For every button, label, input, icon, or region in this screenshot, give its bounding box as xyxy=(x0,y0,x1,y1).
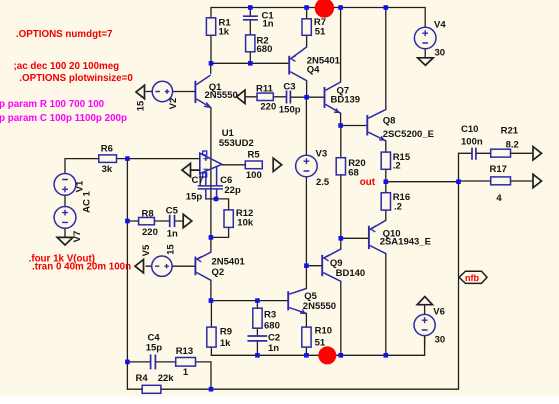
wire base row y300.6 xyxy=(211,300,288,302)
capacitor C5 xyxy=(170,216,175,227)
wire Q5 emitter / R10 leads xyxy=(305,313,307,355)
voltage source V7 xyxy=(54,207,76,229)
svg-text:Q4: Q4 xyxy=(307,65,320,76)
voltage source V6 xyxy=(414,314,435,335)
wire Q2 collector down xyxy=(210,280,212,300)
svg-text:R21: R21 xyxy=(501,126,519,137)
svg-text:;ac dec 100 20 100meg: ;ac dec 100 20 100meg xyxy=(14,61,120,72)
svg-text:10k: 10k xyxy=(237,217,254,228)
svg-text:C3: C3 xyxy=(283,82,295,93)
svg-text:R9: R9 xyxy=(220,327,232,338)
voltage source V3 xyxy=(296,155,318,177)
resistor R4 xyxy=(142,385,161,393)
resistor R17 xyxy=(491,177,511,185)
svg-text:R5: R5 xyxy=(248,150,261,161)
port in V5 xyxy=(135,260,144,273)
svg-text:2SA1943_E: 2SA1943_E xyxy=(380,237,431,248)
op-amp U1 xyxy=(200,151,246,177)
port C5 xyxy=(183,214,192,227)
port in V2 xyxy=(136,85,145,98)
svg-text:51: 51 xyxy=(315,27,326,38)
resistor R12 xyxy=(224,210,233,228)
svg-text:1n: 1n xyxy=(263,19,274,30)
marker red dot top xyxy=(315,0,334,18)
resistor R13 xyxy=(176,358,196,367)
svg-text:V1: V1 xyxy=(75,180,86,192)
ground V4 xyxy=(418,58,434,66)
wire Q10 base row xyxy=(341,237,369,239)
svg-text:C2: C2 xyxy=(268,333,280,344)
svg-text:V4: V4 xyxy=(434,20,446,31)
svg-text:.2: .2 xyxy=(394,202,402,213)
resistor R7 xyxy=(302,19,311,36)
svg-text:2N5550: 2N5550 xyxy=(303,301,336,312)
svg-text:C10: C10 xyxy=(461,124,478,135)
resistor R3 xyxy=(253,308,262,328)
svg-text:C7: C7 xyxy=(192,175,204,186)
resistor R1 xyxy=(206,18,215,36)
transistor Q8 xyxy=(367,110,386,141)
svg-text:R10: R10 xyxy=(315,326,332,337)
transistor Q5 xyxy=(288,289,306,314)
port node1 R11 xyxy=(237,90,246,103)
svg-text:.tran 0 40m 20m 100n: .tran 0 40m 20m 100n xyxy=(32,262,131,273)
wire V3 leads xyxy=(305,97,307,266)
svg-text:.OPTIONS plotwinsize=0: .OPTIONS plotwinsize=0 xyxy=(19,73,133,84)
marker red dot bottom xyxy=(318,346,336,364)
wire C4 R13 row xyxy=(127,362,211,389)
wire V5 Q2 base xyxy=(146,265,194,267)
svg-text:1n: 1n xyxy=(268,343,279,354)
wire V6 leads xyxy=(424,305,426,345)
svg-text:R6: R6 xyxy=(101,144,113,155)
wire Q8 base row xyxy=(341,125,368,127)
svg-text:nfb: nfb xyxy=(465,273,479,283)
svg-text:220: 220 xyxy=(142,227,158,238)
wire R8 C5 row xyxy=(127,220,183,222)
transistor Q7 xyxy=(325,82,341,113)
wire Q10 collector down xyxy=(385,254,387,356)
capacitor C10 xyxy=(472,149,476,159)
resistor R16 xyxy=(381,193,390,210)
wire R17 row xyxy=(459,180,532,182)
resistor R5 xyxy=(245,161,262,169)
svg-text:BD139: BD139 xyxy=(331,94,361,105)
capacitor C7 xyxy=(198,171,209,199)
svg-text:1k: 1k xyxy=(219,27,230,38)
voltage source V4 xyxy=(414,27,436,49)
svg-text:30: 30 xyxy=(435,334,446,345)
voltage source V5 xyxy=(152,256,172,276)
resistor R20 xyxy=(336,158,345,175)
wire bottom rail1 xyxy=(211,336,424,356)
port out R5 xyxy=(273,158,282,171)
svg-text:15p: 15p xyxy=(146,343,163,354)
svg-text:22k: 22k xyxy=(158,373,175,384)
wire node row y63 xyxy=(211,8,288,64)
svg-text:680: 680 xyxy=(257,44,273,55)
svg-text:2.5: 2.5 xyxy=(316,177,330,188)
capacitor C4 xyxy=(151,355,156,368)
svg-text:p param C 100p 1100p 200p: p param C 100p 1100p 200p xyxy=(0,113,127,124)
wire R20 leads xyxy=(340,126,342,250)
voltage source V2 xyxy=(152,81,172,101)
wire y97 row xyxy=(290,81,324,98)
svg-text:R17: R17 xyxy=(490,164,507,175)
svg-text:15p: 15p xyxy=(186,192,203,203)
svg-text:Q8: Q8 xyxy=(383,116,396,127)
resistor R2 xyxy=(246,35,255,52)
port opamp plus xyxy=(182,163,200,176)
svg-text:3k: 3k xyxy=(102,164,113,175)
wire nfb vertical and bottom rail2 xyxy=(127,182,458,390)
wire Q9 collector down xyxy=(340,281,342,355)
svg-text:1: 1 xyxy=(183,367,189,378)
svg-text:V3: V3 xyxy=(316,149,328,160)
svg-text:100: 100 xyxy=(246,170,262,181)
svg-text:R8: R8 xyxy=(142,209,154,220)
wire Q1 collector/base xyxy=(146,63,211,91)
svg-text:AC 1: AC 1 xyxy=(82,190,93,212)
svg-text:V5: V5 xyxy=(141,244,152,256)
svg-text:30: 30 xyxy=(435,47,446,58)
ground V7 xyxy=(57,237,73,245)
transistor Q1 xyxy=(195,75,211,108)
svg-text:V2: V2 xyxy=(168,98,179,110)
transistor Q2 xyxy=(195,252,211,280)
wire R7 leads xyxy=(306,8,308,48)
wire R9 leads xyxy=(210,301,212,356)
svg-text:8.2: 8.2 xyxy=(506,140,519,151)
transistor Q10 xyxy=(369,220,386,253)
svg-text:100n: 100n xyxy=(461,136,483,147)
resistor R11 xyxy=(257,93,273,100)
svg-text:Q2: Q2 xyxy=(212,267,225,278)
svg-text:15: 15 xyxy=(165,244,176,255)
svg-text:22p: 22p xyxy=(224,185,241,196)
resistor R15 xyxy=(381,152,390,169)
svg-text:out: out xyxy=(360,177,376,188)
svg-text:680: 680 xyxy=(264,321,280,332)
svg-text:BD140: BD140 xyxy=(336,268,366,279)
transistor Q9 xyxy=(322,249,341,281)
wire Q7 collector/emitter xyxy=(340,8,342,126)
svg-text:R4: R4 xyxy=(136,373,149,384)
svg-text:V7: V7 xyxy=(72,231,83,243)
transistor Q4 xyxy=(289,47,306,81)
svg-text:68: 68 xyxy=(348,167,359,178)
wire left column x127 xyxy=(126,159,128,390)
resistor R9 xyxy=(207,327,216,347)
wire R16 bottom xyxy=(385,210,387,220)
port R17 right xyxy=(533,174,542,187)
svg-text:V6: V6 xyxy=(433,307,445,318)
svg-text:553UD2: 553UD2 xyxy=(219,138,254,149)
svg-text:C5: C5 xyxy=(166,206,179,217)
wire top rail xyxy=(211,8,425,28)
capacitor C6 xyxy=(211,167,222,199)
svg-text:p param R 100 700 100: p param R 100 700 100 xyxy=(0,99,105,110)
wire R11 C3 row xyxy=(246,96,286,98)
wire V1-V7 link xyxy=(64,196,66,238)
wire feedback y158.6 xyxy=(65,159,200,174)
ground V6 flipped xyxy=(417,297,432,305)
wire Q1 emitter long vertical to Q2 xyxy=(210,108,212,253)
svg-text:51: 51 xyxy=(315,338,326,349)
net tag nfb xyxy=(459,271,487,283)
wire R3 C2 leads xyxy=(256,301,258,356)
svg-text:.2: .2 xyxy=(393,160,401,171)
svg-text:15: 15 xyxy=(136,100,147,111)
voltage source V1 xyxy=(54,174,76,196)
svg-text:4: 4 xyxy=(496,193,502,204)
capacitor C1 xyxy=(244,16,257,20)
wire V4 leads xyxy=(424,49,426,58)
resistor R8 xyxy=(139,218,155,225)
svg-text:.OPTIONS numdgt=7: .OPTIONS numdgt=7 xyxy=(16,29,113,40)
wire out row xyxy=(386,169,459,192)
port R21 right xyxy=(533,147,542,160)
svg-text:220: 220 xyxy=(260,101,276,112)
svg-text:1n: 1n xyxy=(167,229,178,240)
svg-text:R11: R11 xyxy=(256,83,274,94)
wire Q5 collector / Q9 base row xyxy=(306,266,322,289)
svg-text:2SC5200_E: 2SC5200_E xyxy=(383,129,434,140)
resistor R6 xyxy=(99,155,117,163)
capacitor C3 xyxy=(287,91,291,102)
wire comp-cap bottom row xyxy=(206,199,229,210)
svg-text:R3: R3 xyxy=(264,310,276,321)
svg-text:R13: R13 xyxy=(176,346,193,357)
svg-text:1k: 1k xyxy=(220,338,231,349)
wire Q8 collector/emitter xyxy=(385,8,387,153)
svg-text:150p: 150p xyxy=(279,105,301,116)
svg-text:2N5550: 2N5550 xyxy=(205,90,238,101)
resistor R21 xyxy=(491,149,511,157)
wire R12 bottom row xyxy=(211,227,229,237)
resistor R10 xyxy=(302,327,311,347)
wire C10 R21 branch xyxy=(459,153,532,181)
capacitor C2 xyxy=(248,336,266,341)
